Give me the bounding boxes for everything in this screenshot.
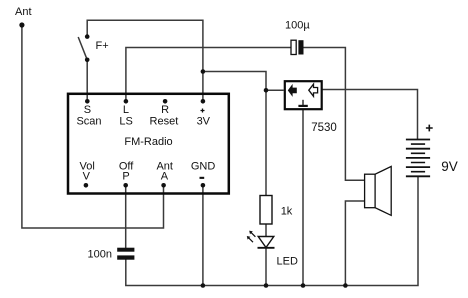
svg-text:P: P — [122, 171, 129, 183]
svg-text:LED: LED — [277, 256, 298, 268]
svg-text:Ant: Ant — [15, 6, 32, 18]
svg-text:100µ: 100µ — [285, 19, 310, 31]
svg-text:3V: 3V — [197, 115, 211, 127]
svg-text:R: R — [161, 104, 169, 116]
svg-text:V: V — [83, 171, 91, 183]
svg-text:L: L — [123, 104, 129, 116]
svg-text:Scan: Scan — [76, 115, 101, 127]
svg-text:100n: 100n — [88, 248, 112, 260]
svg-text:9V: 9V — [441, 159, 458, 174]
svg-text:FM-Radio: FM-Radio — [124, 136, 172, 148]
svg-text:7530: 7530 — [311, 122, 337, 134]
svg-text:Reset: Reset — [150, 115, 179, 127]
svg-text:LS: LS — [119, 115, 132, 127]
svg-text:1k: 1k — [281, 206, 293, 218]
svg-text:S: S — [84, 104, 91, 116]
svg-text:A: A — [161, 171, 169, 183]
svg-text:F+: F+ — [96, 40, 109, 52]
svg-text:GND: GND — [191, 161, 216, 173]
